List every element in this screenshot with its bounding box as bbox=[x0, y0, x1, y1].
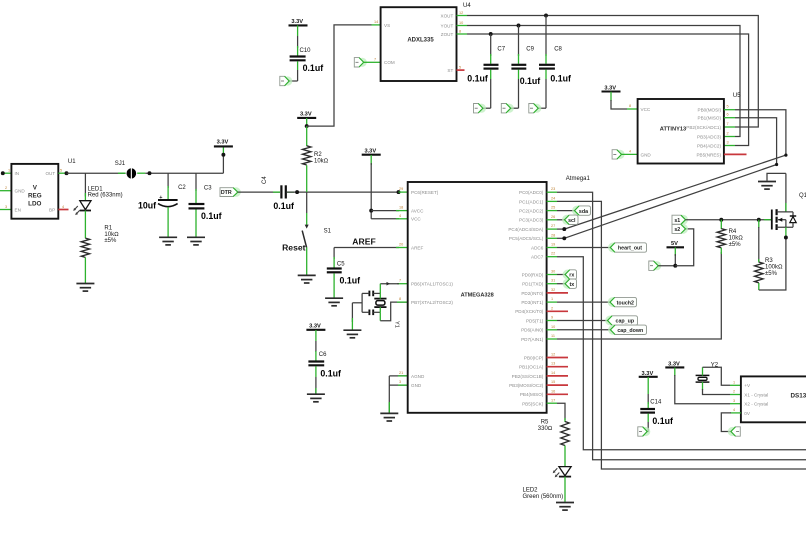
svg-text:24: 24 bbox=[551, 196, 555, 200]
resistor R2 bbox=[306, 126, 308, 146]
svg-text:AGND: AGND bbox=[411, 374, 425, 379]
svg-text:0V: 0V bbox=[744, 411, 751, 416]
svg-text:8: 8 bbox=[399, 297, 401, 301]
svg-text:10kΩ: 10kΩ bbox=[314, 159, 329, 165]
svg-text:sda: sda bbox=[579, 209, 588, 215]
net flag under C14 bbox=[638, 427, 651, 436]
svg-text:4: 4 bbox=[399, 214, 401, 218]
ground below C5 bbox=[325, 298, 343, 306]
svg-text:OUT: OUT bbox=[45, 171, 55, 176]
svg-text:R4: R4 bbox=[729, 229, 737, 235]
svg-text:2: 2 bbox=[733, 390, 735, 394]
wire: U1 IN lead bbox=[3, 172, 12, 174]
transistor Q1 bbox=[785, 173, 787, 212]
svg-text:8: 8 bbox=[459, 29, 461, 33]
svg-text:PB1(OC1A): PB1(OC1A) bbox=[519, 365, 544, 370]
svg-text:4: 4 bbox=[629, 149, 631, 153]
wire: XOUT bus bbox=[457, 15, 468, 17]
net flag s2 bbox=[678, 224, 688, 234]
svg-text:+V: +V bbox=[744, 383, 751, 388]
wire: left cap bus bbox=[361, 293, 363, 312]
svg-text:PC1(ADC1): PC1(ADC1) bbox=[519, 199, 544, 204]
svg-text:PD2(INT0): PD2(INT0) bbox=[521, 291, 543, 296]
svg-text:14: 14 bbox=[374, 20, 378, 24]
svg-text:7: 7 bbox=[374, 58, 376, 62]
svg-text:C7: C7 bbox=[497, 47, 505, 53]
svg-text:4: 4 bbox=[62, 205, 64, 209]
svg-text:EN: EN bbox=[15, 207, 21, 212]
svg-text:PB5(SCK): PB5(SCK) bbox=[522, 401, 544, 406]
svg-text:Atmega1: Atmega1 bbox=[566, 176, 591, 182]
svg-text:18: 18 bbox=[399, 206, 403, 210]
svg-text:COM: COM bbox=[384, 60, 395, 65]
svg-text:±5%: ±5% bbox=[765, 271, 778, 277]
capacitor C8 bbox=[545, 16, 547, 57]
net flag touch2 bbox=[608, 297, 618, 307]
svg-text:SJ1: SJ1 bbox=[115, 161, 126, 167]
svg-text:DS1307: DS1307 bbox=[791, 393, 806, 400]
resistor R1 bbox=[84, 225, 86, 238]
node: IN endpoint dot bbox=[1, 171, 5, 175]
svg-text:PC2(ADC2): PC2(ADC2) bbox=[519, 209, 544, 214]
svg-text:2: 2 bbox=[551, 306, 553, 310]
microcontroller U5 ATTINY13 bbox=[638, 99, 724, 164]
wire: AVCC bbox=[371, 210, 399, 212]
node: junction after OUT bbox=[65, 171, 69, 175]
svg-text:tx: tx bbox=[569, 282, 574, 288]
ground below S1 bbox=[298, 275, 316, 283]
svg-text:C9: C9 bbox=[526, 47, 534, 53]
svg-text:PB2(SCK/ADC1): PB2(SCK/ADC1) bbox=[686, 125, 721, 130]
net flag GND (ATTINY) bbox=[612, 150, 625, 159]
wire: 3.3V to X2 pin bbox=[675, 375, 730, 404]
svg-text:+: + bbox=[159, 195, 162, 201]
svg-text:PB0(ICP): PB0(ICP) bbox=[524, 355, 544, 360]
capacitor C9 bbox=[518, 26, 520, 57]
svg-text:PB3(ADC3): PB3(ADC3) bbox=[697, 135, 721, 140]
net flag s1 bbox=[678, 215, 688, 225]
ground below AGND bbox=[380, 413, 398, 421]
wire: COM flag to pin bbox=[364, 61, 372, 63]
svg-text:28: 28 bbox=[551, 233, 555, 237]
svg-text:3.3V: 3.3V bbox=[642, 371, 654, 377]
svg-text:13: 13 bbox=[551, 362, 555, 366]
svg-text:R1: R1 bbox=[104, 226, 112, 232]
svg-text:10kΩ: 10kΩ bbox=[104, 232, 119, 238]
crystal Y1 bbox=[374, 298, 386, 300]
pin ST red stub bbox=[457, 69, 465, 71]
svg-text:LED2: LED2 bbox=[523, 488, 539, 494]
svg-text:scl: scl bbox=[568, 218, 576, 224]
power 3.3V above C6 bbox=[306, 329, 325, 331]
svg-text:8: 8 bbox=[629, 104, 631, 108]
capacitor C4 (series) bbox=[280, 185, 282, 198]
svg-text:s2: s2 bbox=[674, 227, 680, 233]
svg-text:3.3V: 3.3V bbox=[291, 19, 303, 25]
wire: U1 GND stub bbox=[0, 190, 11, 192]
capacitor C6 bbox=[315, 330, 317, 341]
svg-text:rx: rx bbox=[569, 273, 574, 279]
ground below LED2 bbox=[556, 503, 574, 511]
voltage regulator U1 bbox=[11, 164, 58, 219]
svg-text:GND: GND bbox=[15, 189, 26, 194]
svg-text:10: 10 bbox=[551, 325, 555, 329]
svg-text:32: 32 bbox=[551, 288, 555, 292]
svg-text:12: 12 bbox=[551, 353, 555, 357]
svg-text:VCC: VCC bbox=[411, 217, 421, 222]
net flag heart_out bbox=[608, 243, 618, 253]
svg-text:touch2: touch2 bbox=[617, 300, 634, 306]
svg-text:R2: R2 bbox=[314, 152, 322, 158]
wire: PC4 stub to diagonal bbox=[547, 228, 557, 230]
svg-text:27: 27 bbox=[551, 224, 555, 228]
svg-text:PD3(INT1): PD3(INT1) bbox=[521, 300, 543, 305]
svg-text:U4: U4 bbox=[463, 3, 471, 9]
svg-text:IN: IN bbox=[15, 171, 20, 176]
wire: crystal top to +V bbox=[702, 367, 704, 375]
svg-text:PB5(NRES): PB5(NRES) bbox=[696, 152, 721, 157]
ground below C6 bbox=[307, 394, 325, 402]
svg-text:0.1uf: 0.1uf bbox=[201, 211, 222, 221]
svg-text:3.3V: 3.3V bbox=[604, 85, 616, 91]
svg-text:PD6(AIN0): PD6(AIN0) bbox=[521, 328, 544, 333]
switch S1 bbox=[305, 225, 309, 229]
pin PD2 red stub bbox=[547, 292, 568, 294]
node: AVCC junction bbox=[369, 209, 373, 213]
svg-text:Q1: Q1 bbox=[799, 193, 806, 199]
svg-text:VS: VS bbox=[384, 23, 390, 28]
svg-text:U5: U5 bbox=[733, 93, 741, 99]
net flag scl bbox=[562, 215, 572, 225]
svg-text:C3: C3 bbox=[204, 186, 212, 192]
capacitor C7 bbox=[490, 34, 492, 56]
svg-text:s1: s1 bbox=[674, 218, 680, 224]
svg-text:1: 1 bbox=[8, 169, 10, 173]
wire: U1 OUT stub bbox=[58, 172, 66, 174]
svg-text:cap_down: cap_down bbox=[617, 328, 643, 334]
svg-text:10uf: 10uf bbox=[138, 200, 156, 210]
svg-text:X1 - Crystal: X1 - Crystal bbox=[744, 392, 768, 397]
svg-text:21: 21 bbox=[399, 371, 403, 375]
svg-text:PC0(ADC0): PC0(ADC0) bbox=[519, 190, 544, 195]
svg-text:heart_out: heart_out bbox=[618, 246, 642, 252]
svg-text:cap_up: cap_up bbox=[616, 319, 635, 325]
capacitor C14 bbox=[647, 377, 649, 394]
svg-text:PB0(MOSI): PB0(MOSI) bbox=[698, 108, 722, 113]
svg-text:YOUT: YOUT bbox=[441, 23, 454, 28]
svg-text:30: 30 bbox=[551, 270, 555, 274]
svg-text:R3: R3 bbox=[765, 258, 773, 264]
svg-text:ADXL335: ADXL335 bbox=[407, 38, 434, 44]
svg-text:XOUT: XOUT bbox=[441, 13, 454, 18]
wire: AGND bbox=[389, 375, 407, 377]
svg-text:19: 19 bbox=[551, 243, 555, 247]
net flag under DS1307 0V bbox=[728, 427, 741, 436]
wire: C10 to flag bbox=[289, 80, 297, 82]
svg-text:ST: ST bbox=[447, 68, 453, 73]
svg-text:ZOUT: ZOUT bbox=[441, 32, 454, 37]
net flag rx bbox=[563, 270, 573, 280]
svg-text:PB2(SS/OC1B): PB2(SS/OC1B) bbox=[512, 374, 544, 379]
wire: PC3 to scl bbox=[547, 219, 557, 221]
node: R3 top junction bbox=[757, 218, 761, 222]
svg-text:16: 16 bbox=[551, 389, 555, 393]
svg-text:12: 12 bbox=[459, 11, 463, 15]
svg-text:2: 2 bbox=[5, 186, 7, 190]
LED2 emission arrows bbox=[553, 468, 560, 477]
wire: PD1 to tx bbox=[547, 283, 557, 285]
wire: U1 EN stub bbox=[0, 209, 11, 211]
pin PB4 red stub bbox=[547, 393, 568, 395]
wire: PD0 to rx bbox=[547, 274, 557, 276]
net flag under C10 bbox=[280, 76, 293, 85]
svg-text:C4: C4 bbox=[262, 176, 268, 184]
svg-text:26: 26 bbox=[551, 215, 555, 219]
svg-text:10kΩ: 10kΩ bbox=[729, 236, 744, 242]
net flag sda bbox=[572, 206, 582, 216]
svg-text:3: 3 bbox=[5, 205, 7, 209]
svg-text:S1: S1 bbox=[324, 228, 332, 234]
pin BP red stub bbox=[58, 209, 68, 211]
capacitor C2 (electrolytic) bbox=[167, 173, 169, 188]
wire: ADC7 bus bbox=[547, 256, 557, 258]
svg-text:C14: C14 bbox=[650, 399, 662, 405]
svg-text:PC4(ADC4/SDA): PC4(ADC4/SDA) bbox=[508, 227, 543, 232]
power 3.3V above AVCC bbox=[362, 154, 381, 156]
ground near Q1 bbox=[767, 173, 786, 180]
wire: PD5 to cap_up bbox=[547, 320, 557, 322]
power 3.3V above ATTINY VCC bbox=[602, 91, 621, 93]
node: dot under 3.3V bbox=[221, 153, 225, 157]
LED LED1 bbox=[80, 201, 91, 210]
svg-text:10: 10 bbox=[459, 21, 463, 25]
LED LED2 bbox=[559, 467, 571, 476]
svg-text:22: 22 bbox=[551, 252, 555, 256]
accelerometer U4 ADXL335 bbox=[381, 7, 457, 81]
wire: VCC bbox=[371, 218, 399, 220]
net flag cap_down bbox=[608, 325, 618, 335]
ground below C3 bbox=[187, 237, 205, 245]
svg-text:1: 1 bbox=[733, 380, 735, 384]
svg-text:C2: C2 bbox=[178, 185, 186, 191]
svg-text:PB3(MOSI/OC2): PB3(MOSI/OC2) bbox=[509, 383, 544, 388]
net flag cap_up bbox=[605, 316, 615, 326]
svg-text:PC5(ADC5/SCL): PC5(ADC5/SCL) bbox=[509, 236, 544, 241]
wire: 3.3V down to VCC bbox=[370, 163, 372, 219]
wire: PC0 bus bbox=[547, 191, 557, 193]
capacitor C10 bbox=[297, 25, 299, 36]
wire: PB5 to R5 bbox=[547, 402, 557, 404]
svg-text:GND: GND bbox=[641, 152, 652, 157]
RTC DS1307 bbox=[741, 376, 806, 422]
LED1 emission arrows bbox=[73, 206, 80, 215]
wire: source down bbox=[785, 227, 787, 237]
power 3.3V above C10 bbox=[289, 24, 308, 26]
svg-text:3.3V: 3.3V bbox=[300, 111, 312, 117]
svg-text:14: 14 bbox=[551, 371, 555, 375]
svg-text:GND: GND bbox=[411, 383, 422, 388]
wire: 5V flag to s2 bbox=[658, 265, 675, 267]
wire: PB6 to crystal bbox=[397, 283, 408, 285]
svg-text:0.1uf: 0.1uf bbox=[320, 369, 341, 379]
resistor R5 bbox=[564, 418, 566, 422]
svg-text:PD1(TXD): PD1(TXD) bbox=[522, 282, 544, 287]
svg-text:PB1(MISO): PB1(MISO) bbox=[698, 116, 722, 121]
node: R4 top junction bbox=[719, 218, 723, 222]
node: C7 tap on ZOUT bbox=[489, 32, 493, 36]
svg-text:REG: REG bbox=[28, 193, 42, 200]
wire: ZOUT bus bbox=[457, 33, 468, 35]
svg-text:2: 2 bbox=[727, 132, 729, 136]
pin PB5(NRES) red stub bbox=[724, 153, 747, 155]
node: dot on reset wire bbox=[295, 190, 299, 194]
svg-text:PB7(XTAL2/TOSC2): PB7(XTAL2/TOSC2) bbox=[411, 300, 453, 305]
ground below R1 bbox=[76, 284, 94, 292]
svg-text:3.3V: 3.3V bbox=[217, 140, 229, 146]
svg-text:PD0(RXD): PD0(RXD) bbox=[522, 272, 544, 277]
svg-text:23: 23 bbox=[551, 187, 555, 191]
svg-text:ATTINY13: ATTINY13 bbox=[660, 127, 686, 133]
svg-text:LDO: LDO bbox=[28, 201, 41, 208]
svg-text:3.3V: 3.3V bbox=[364, 149, 376, 155]
wire: DTR to C4 bbox=[238, 191, 280, 193]
svg-text:5: 5 bbox=[459, 65, 461, 69]
svg-text:0.1uf: 0.1uf bbox=[550, 74, 571, 84]
wire: PD3 to touch2 bbox=[547, 301, 557, 303]
svg-text:Red (633nm): Red (633nm) bbox=[88, 192, 123, 198]
svg-text:7: 7 bbox=[399, 279, 401, 283]
svg-text:PD4(XCK/T0): PD4(XCK/T0) bbox=[515, 309, 544, 314]
wire: VS net from 3.3V node bbox=[307, 25, 372, 126]
svg-text:3.3V: 3.3V bbox=[309, 323, 321, 329]
svg-text:DTR: DTR bbox=[221, 190, 232, 196]
svg-text:0.1uf: 0.1uf bbox=[520, 76, 541, 86]
svg-text:9: 9 bbox=[551, 316, 553, 320]
wire: 0V to flag bbox=[730, 412, 741, 414]
svg-text:R5: R5 bbox=[541, 420, 549, 426]
wire: crystal bottom to X1 bbox=[702, 382, 704, 390]
svg-text:1: 1 bbox=[551, 297, 553, 301]
svg-text:U1: U1 bbox=[68, 159, 76, 165]
svg-text:ADC6: ADC6 bbox=[531, 245, 544, 250]
pin PB1 red stub bbox=[547, 366, 568, 368]
svg-text:3.3V: 3.3V bbox=[668, 361, 680, 367]
resistor R3 bbox=[758, 220, 760, 228]
pin PB2 red stub bbox=[547, 375, 568, 377]
net flag DTR bbox=[231, 187, 241, 197]
node: junction 3.3V/R2/VS bbox=[305, 124, 309, 128]
wire: PC2 to sda bbox=[547, 210, 557, 212]
wire: R3 bottom to source bbox=[759, 238, 786, 291]
svg-text:Reset: Reset bbox=[282, 242, 306, 252]
wire: PD6 to cap_down bbox=[547, 329, 557, 331]
wire: s1 to Q1 gate bbox=[686, 219, 772, 221]
svg-text:Green (560nm): Green (560nm) bbox=[523, 494, 564, 500]
svg-text:3: 3 bbox=[733, 399, 735, 403]
svg-text:±5%: ±5% bbox=[729, 242, 742, 248]
crystal Y2 bbox=[696, 374, 710, 376]
wire: R2 bottom to switch S1 bbox=[306, 192, 308, 213]
svg-text:PB4(ADC2): PB4(ADC2) bbox=[697, 144, 721, 149]
ground below Y1 caps bbox=[343, 330, 361, 338]
svg-text:0.1uf: 0.1uf bbox=[303, 63, 324, 73]
svg-text:4: 4 bbox=[733, 408, 735, 412]
svg-text:17: 17 bbox=[551, 399, 555, 403]
svg-text:AREF: AREF bbox=[352, 237, 375, 247]
capacitor xtal bottom bbox=[368, 310, 370, 316]
net flag 5V bbox=[649, 261, 662, 270]
svg-text:BP: BP bbox=[49, 207, 55, 212]
wire: GND bbox=[389, 384, 407, 386]
svg-text:ADC7: ADC7 bbox=[531, 255, 544, 260]
ground below C2 bbox=[159, 237, 177, 245]
svg-text:ATMEGA328: ATMEGA328 bbox=[461, 292, 494, 298]
wire: down to ground bbox=[388, 376, 390, 413]
svg-text:20: 20 bbox=[399, 243, 403, 247]
svg-text:330Ω: 330Ω bbox=[538, 426, 553, 432]
svg-text:0.1uf: 0.1uf bbox=[340, 276, 361, 286]
wire: C4 to RESET pin bbox=[287, 191, 399, 193]
resistor R4 bbox=[720, 220, 722, 229]
svg-text:5: 5 bbox=[60, 169, 62, 173]
power 3.3V above C14 bbox=[639, 376, 658, 378]
wire: PB1 to PC4 diagonal bbox=[724, 117, 735, 119]
svg-text:31: 31 bbox=[551, 279, 555, 283]
svg-text:PD7(AIN1): PD7(AIN1) bbox=[521, 337, 544, 342]
node: junction right of SJ1 bbox=[148, 171, 152, 175]
svg-text:7: 7 bbox=[727, 122, 729, 126]
svg-text:PB4(MISO): PB4(MISO) bbox=[520, 392, 544, 397]
net flag COM bbox=[354, 58, 367, 67]
capacitor C3 bbox=[195, 173, 197, 191]
Q1 body diode bbox=[792, 212, 794, 216]
svg-text:±5%: ±5% bbox=[104, 238, 117, 244]
svg-text:PC6(RESET): PC6(RESET) bbox=[411, 190, 439, 195]
power 3.3V above X2 bbox=[665, 366, 684, 368]
svg-text:C5: C5 bbox=[337, 261, 345, 267]
svg-text:25: 25 bbox=[551, 206, 555, 210]
svg-text:3: 3 bbox=[399, 380, 401, 384]
svg-text:VCC: VCC bbox=[641, 107, 651, 112]
svg-text:AREF: AREF bbox=[411, 245, 423, 250]
svg-text:6: 6 bbox=[727, 113, 729, 117]
svg-text:PC3(ADC3): PC3(ADC3) bbox=[519, 218, 544, 223]
svg-text:0.1uf: 0.1uf bbox=[652, 416, 673, 426]
svg-text:AVCC: AVCC bbox=[411, 209, 424, 214]
svg-text:15: 15 bbox=[551, 380, 555, 384]
svg-text:5: 5 bbox=[727, 105, 729, 109]
pin PB3 red stub bbox=[547, 384, 568, 386]
svg-text:PD5(T1): PD5(T1) bbox=[526, 318, 544, 323]
svg-text:0.1uf: 0.1uf bbox=[467, 74, 488, 84]
wire: tap to ground bbox=[352, 302, 362, 304]
wire: LED1 branch vertical bbox=[84, 173, 86, 196]
svg-text:0.1uf: 0.1uf bbox=[273, 201, 294, 211]
svg-text:X2 - Crystal: X2 - Crystal bbox=[744, 402, 768, 407]
svg-text:29: 29 bbox=[399, 187, 403, 191]
wire: PB0 to PC5 diagonal bbox=[724, 109, 735, 111]
pin PB0 red stub bbox=[547, 357, 568, 359]
svg-text:C6: C6 bbox=[319, 352, 327, 358]
net flag tx bbox=[563, 279, 573, 289]
svg-text:C8: C8 bbox=[554, 47, 562, 53]
microcontroller Atmega1 ATMEGA328 bbox=[408, 182, 547, 413]
node: C8 tap on XOUT bbox=[544, 14, 548, 18]
svg-text:PB6(XTAL1/TOSC1): PB6(XTAL1/TOSC1) bbox=[411, 282, 453, 287]
wire: OUT to SJ1 bbox=[67, 172, 126, 174]
wire: SJ1 to 3.3V corner bbox=[145, 172, 223, 174]
svg-text:Y1: Y1 bbox=[393, 321, 399, 328]
